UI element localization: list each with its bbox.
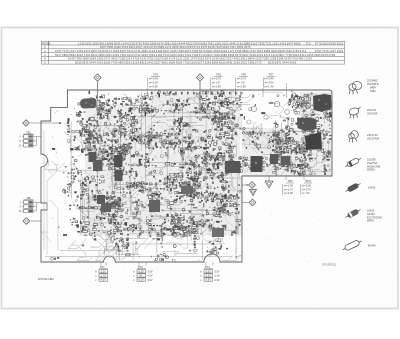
svg-text:4141: 4141 — [140, 57, 147, 61]
svg-text:1920: 1920 — [97, 57, 104, 61]
svg-text:C: C — [19, 206, 21, 209]
svg-text:1753: 1753 — [236, 41, 243, 45]
svg-text:4606: 4606 — [294, 41, 301, 45]
IC component top-right corner — [313, 94, 332, 112]
svg-text:TP3: TP3 — [205, 266, 210, 269]
wire from TB2 into board — [37, 201, 42, 203]
svg-text:5943: 5943 — [293, 53, 300, 57]
svg-text:c=-2.8V: c=-2.8V — [212, 84, 221, 88]
svg-text:1320: 1320 — [154, 57, 161, 61]
wire to G2 — [268, 176, 270, 181]
svg-text:1S425: 1S425 — [368, 187, 376, 190]
dark cluster lower-mid2 — [181, 186, 193, 194]
svg-text:5030: 5030 — [75, 60, 82, 64]
svg-text:e=-4.2V: e=-4.2V — [149, 81, 158, 85]
svg-text:TP2: TP2 — [138, 266, 143, 269]
svg-text:1905: 1905 — [92, 41, 99, 45]
svg-text:2980: 2980 — [221, 53, 228, 57]
svg-text:9857: 9857 — [91, 49, 98, 53]
svg-text:1537: 1537 — [257, 49, 264, 53]
svg-text:5976: 5976 — [321, 53, 328, 57]
svg-text:5497: 5497 — [242, 53, 249, 57]
svg-text:3877: 3877 — [287, 41, 294, 45]
svg-text:TR5: TR5 — [216, 73, 221, 77]
transistor package Q-type3 — [349, 131, 359, 143]
svg-text:9149: 9149 — [68, 57, 75, 61]
svg-text:5764: 5764 — [193, 41, 200, 45]
svg-text:-2.5V: -2.5V — [214, 271, 220, 274]
svg-text:4915: 4915 — [122, 45, 129, 49]
svg-text:9093: 9093 — [200, 41, 207, 45]
svg-text:6312: 6312 — [127, 49, 134, 53]
svg-text:6192: 6192 — [85, 41, 92, 45]
svg-text:6423: 6423 — [206, 53, 213, 57]
svg-text:-1.2V: -1.2V — [214, 275, 220, 278]
svg-text:7758: 7758 — [285, 53, 292, 57]
test point table TP3 (bottom) — [200, 266, 220, 282]
svg-text:c=-1.3V: c=-1.3V — [265, 84, 274, 88]
wire leader at x286 — [285, 83, 287, 98]
svg-text:2182: 2182 — [156, 53, 163, 57]
svg-text:3989: 3989 — [98, 53, 105, 57]
svg-text:4674: 4674 — [84, 49, 91, 53]
voltage table TR7 — [263, 73, 276, 97]
wire from P1 into board — [97, 81, 99, 98]
svg-text:8891: 8891 — [69, 53, 76, 57]
svg-text:8751: 8751 — [136, 41, 143, 45]
svg-text:e= 0V: e= 0V — [212, 81, 220, 85]
svg-text:7200: 7200 — [192, 53, 199, 57]
svg-text:5345: 5345 — [205, 60, 212, 64]
parts list table — [42, 41, 345, 64]
svg-text:6711: 6711 — [134, 49, 141, 53]
long bus trace along bottom 2 — [60, 244, 225, 251]
wire edge to P6 — [242, 202, 249, 204]
svg-text:c=-2.8V: c=-2.8V — [237, 84, 246, 88]
PCB board outline — [41, 90, 332, 262]
svg-text:3516: 3516 — [172, 41, 179, 45]
svg-text:9787: 9787 — [55, 49, 62, 53]
svg-text:9444: 9444 — [89, 60, 96, 64]
svg-text:TR9: TR9 — [288, 179, 293, 183]
svg-text:7756: 7756 — [183, 60, 190, 64]
svg-text:WZ061: WZ061 — [367, 169, 376, 172]
diode package D-type2 (dark) — [344, 181, 361, 193]
svg-text:4739: 4739 — [133, 57, 140, 61]
svg-text:c= 0V: c= 0V — [302, 191, 310, 195]
svg-text:3796: 3796 — [329, 53, 336, 57]
svg-text:1562: 1562 — [215, 41, 222, 45]
wire edge to P5 — [242, 184, 248, 186]
svg-text:4462: 4462 — [143, 41, 150, 45]
connector pin P5 — [249, 182, 256, 189]
jumper wire package (open cylinder) — [341, 238, 362, 252]
svg-text:0V: 0V — [138, 275, 143, 278]
wire from TB1 into board — [37, 136, 42, 138]
svg-text:2808: 2808 — [172, 45, 179, 49]
electrolytic blob right-lower — [251, 156, 263, 172]
svg-text:-1.3V: -1.3V — [100, 270, 106, 273]
svg-text:5043: 5043 — [222, 45, 229, 49]
svg-text:7460: 7460 — [285, 49, 292, 53]
svg-text:7692: 7692 — [192, 49, 199, 53]
svg-text:9148: 9148 — [284, 57, 291, 61]
svg-text:2110: 2110 — [251, 41, 258, 45]
svg-text:6232: 6232 — [257, 53, 264, 57]
svg-text:8245: 8245 — [77, 53, 84, 57]
svg-text:6537: 6537 — [163, 49, 170, 53]
svg-text:-0.3V: -0.3V — [205, 270, 211, 273]
svg-text:7745: 7745 — [111, 60, 118, 64]
transistor package Q-type1 (TO-92 perspective) — [349, 81, 362, 94]
svg-text:9201: 9201 — [125, 60, 132, 64]
svg-text:3298: 3298 — [277, 57, 284, 61]
svg-text:2031: 2031 — [272, 41, 279, 45]
svg-text:5225: 5225 — [128, 41, 135, 45]
svg-text:6676: 6676 — [235, 53, 242, 57]
svg-text:-1.2V: -1.2V — [205, 275, 211, 278]
svg-text:8174: 8174 — [105, 49, 112, 53]
svg-text:9151: 9151 — [222, 41, 229, 45]
svg-text:9444: 9444 — [282, 60, 289, 64]
svg-text:1100: 1100 — [190, 60, 197, 64]
connector pin P4 (lower-left diamond) — [23, 218, 30, 225]
svg-text:5756: 5756 — [147, 57, 154, 61]
svg-text:2027: 2027 — [226, 57, 233, 61]
leaders TP2 — [138, 262, 140, 266]
svg-text:7238: 7238 — [118, 57, 125, 61]
svg-text:9842: 9842 — [161, 60, 168, 64]
leaders TP3 — [205, 262, 207, 266]
svg-text:5260: 5260 — [162, 57, 169, 61]
parts table row texts — [42, 41, 343, 64]
connector pin P3 (left edge diamond) — [23, 120, 30, 127]
svg-text:7542: 7542 — [208, 41, 215, 45]
svg-text:7175: 7175 — [62, 49, 69, 53]
svg-text:1808: 1808 — [82, 57, 89, 61]
svg-text:e=-3.0V: e=-3.0V — [265, 81, 274, 85]
svg-text:5713: 5713 — [194, 45, 201, 49]
svg-text:1479: 1479 — [190, 57, 197, 61]
IC above bottom edge of right arm — [225, 161, 241, 173]
svg-text:2607: 2607 — [136, 45, 143, 49]
leader from TR10 — [303, 176, 305, 180]
svg-text:TR10: TR10 — [305, 179, 312, 183]
diode package D-type3 — [344, 207, 361, 219]
svg-text:7906: 7906 — [213, 53, 220, 57]
svg-text:1144: 1144 — [121, 41, 128, 45]
svg-text:1241: 1241 — [126, 57, 133, 61]
svg-text:6374: 6374 — [157, 41, 164, 45]
svg-text:MODEL: MODEL — [42, 42, 51, 45]
svg-text:7347: 7347 — [230, 45, 237, 49]
svg-text:1039: 1039 — [337, 49, 344, 53]
svg-text:6742: 6742 — [134, 53, 141, 57]
svg-text:6894: 6894 — [62, 53, 69, 57]
svg-text:2229: 2229 — [255, 57, 262, 61]
svg-text:1347: 1347 — [69, 49, 76, 53]
test point table TP2 (bottom) — [133, 266, 153, 282]
scan grey wash dense zones — [80, 90, 332, 236]
svg-text:3976: 3976 — [205, 57, 212, 61]
svg-text:5023: 5023 — [337, 41, 344, 45]
wire from P3 to board — [31, 122, 61, 124]
capacitor rings right-top — [297, 102, 303, 108]
svg-text:9444: 9444 — [179, 41, 186, 45]
svg-text:7285: 7285 — [258, 41, 265, 45]
svg-text:-5.0V: -5.0V — [147, 279, 153, 282]
svg-text:9406: 9406 — [221, 49, 228, 53]
labels 2SC945 group — [367, 80, 379, 93]
svg-text:3235: 3235 — [170, 49, 177, 53]
svg-text:-0.9V: -0.9V — [214, 279, 220, 282]
svg-text:1119: 1119 — [271, 53, 278, 57]
svg-text:5499: 5499 — [156, 49, 163, 53]
shielding can top-left — [80, 98, 97, 109]
svg-text:5111: 5111 — [176, 57, 183, 61]
svg-text:8041: 8041 — [206, 49, 213, 53]
svg-text:3962: 3962 — [164, 41, 171, 45]
svg-text:3083: 3083 — [271, 49, 278, 53]
svg-text:4143: 4143 — [290, 60, 297, 64]
labels 1S425/AA143 group — [367, 210, 382, 223]
svg-text:5827: 5827 — [278, 53, 285, 57]
svg-text:9710: 9710 — [300, 49, 307, 53]
svg-text:c=-4.3V: c=-4.3V — [284, 191, 293, 195]
svg-text:2651: 2651 — [105, 53, 112, 57]
wire from P4 to board — [31, 220, 41, 222]
svg-text:9079: 9079 — [185, 49, 192, 53]
svg-text:8648: 8648 — [278, 49, 285, 53]
svg-text:3264: 3264 — [141, 53, 148, 57]
svg-text:5019: 5019 — [98, 49, 105, 53]
voltage table TR5 — [211, 73, 224, 95]
svg-text:5606: 5606 — [104, 60, 111, 64]
svg-text:6034: 6034 — [170, 53, 177, 57]
svg-text:b=-1.3V: b=-1.3V — [284, 183, 293, 187]
svg-text:TR7: TR7 — [269, 73, 274, 77]
svg-text:7319: 7319 — [185, 53, 192, 57]
labels 1S2076 group — [367, 159, 381, 172]
svg-text:CP107CQ: CP107CQ — [322, 262, 336, 266]
dark vertical strip left-mid — [114, 155, 123, 167]
svg-text:8391: 8391 — [107, 45, 114, 49]
svg-text:C: C — [19, 140, 21, 143]
long bus trace along bottom — [45, 256, 232, 258]
svg-text:8068: 8068 — [114, 45, 121, 49]
svg-text:e=-3.7V: e=-3.7V — [302, 187, 311, 191]
connector block TB2 (left lower) — [19, 197, 36, 213]
svg-text:2775: 2775 — [255, 60, 262, 64]
svg-text:7361: 7361 — [120, 53, 127, 57]
svg-text:8813: 8813 — [100, 41, 107, 45]
svg-text:6714: 6714 — [199, 53, 206, 57]
svg-text:1039: 1039 — [77, 49, 84, 53]
svg-text:e= 0V: e= 0V — [237, 81, 245, 85]
label 1S425 — [368, 187, 376, 190]
svg-text:3168: 3168 — [233, 60, 240, 64]
svg-text:BY409: BY409 — [368, 245, 376, 248]
svg-text:WR61: WR61 — [367, 220, 375, 223]
label BY409 — [368, 245, 376, 248]
svg-text:6910: 6910 — [129, 45, 136, 49]
svg-text:4143: 4143 — [97, 60, 104, 64]
svg-text:9787: 9787 — [315, 49, 322, 53]
svg-text:6264: 6264 — [186, 45, 193, 49]
connector block TB1 (left) — [19, 131, 36, 147]
svg-text:5916: 5916 — [300, 53, 307, 57]
svg-text:3899: 3899 — [228, 53, 235, 57]
leader from TR9 — [285, 176, 287, 180]
svg-text:2191: 2191 — [183, 57, 190, 61]
connector pin P6 — [249, 199, 256, 206]
svg-text:6589: 6589 — [158, 45, 165, 49]
svg-text:-3.9V: -3.9V — [205, 279, 211, 282]
svg-text:3895: 3895 — [107, 41, 114, 45]
svg-text:7695: 7695 — [177, 49, 184, 53]
svg-text:7380: 7380 — [75, 57, 82, 61]
svg-text:4054: 4054 — [177, 53, 184, 57]
cluster right-mid upper — [297, 118, 317, 132]
svg-text:b=-3.4V: b=-3.4V — [149, 77, 158, 81]
svg-text:9377: 9377 — [197, 60, 204, 64]
connector pin P2 (top-mid diamond) — [196, 74, 203, 81]
labels 2SC1740 group — [367, 134, 379, 140]
voltage table TR10 — [301, 179, 312, 195]
connector pin P1 (top-left diamond) — [94, 74, 101, 81]
svg-text:7549: 7549 — [149, 53, 156, 57]
svg-text:3771: 3771 — [104, 57, 111, 61]
svg-text:5673: 5673 — [199, 49, 206, 53]
svg-text:4750: 4750 — [293, 49, 300, 53]
svg-text:7304: 7304 — [84, 53, 91, 57]
svg-text:6429: 6429 — [113, 53, 120, 57]
svg-text:8620: 8620 — [91, 53, 98, 57]
wire bundle: copper traces over whole board — [42, 91, 330, 260]
svg-text:1020: 1020 — [306, 57, 313, 61]
svg-text:TP1: TP1 — [100, 266, 105, 269]
svg-text:9227: 9227 — [154, 60, 161, 64]
svg-text:8230: 8230 — [219, 60, 226, 64]
heatsink blob right-mid — [305, 132, 322, 150]
svg-text:TL5: TL5 — [306, 41, 311, 45]
voltage table TR9 — [283, 179, 294, 195]
svg-text:3374: 3374 — [264, 53, 271, 57]
svg-text:4451: 4451 — [234, 57, 241, 61]
svg-text:9854: 9854 — [248, 57, 255, 61]
svg-text:3004: 3004 — [169, 60, 176, 64]
svg-text:1474: 1474 — [165, 45, 172, 49]
svg-text:3228: 3228 — [249, 53, 256, 57]
svg-text:-0.1V: -0.1V — [138, 279, 144, 282]
svg-text:4425: 4425 — [111, 57, 118, 61]
cluster right-mid band — [270, 154, 278, 164]
ground symbol G1 — [250, 190, 257, 196]
svg-text:5030: 5030 — [268, 60, 275, 64]
svg-text:5491: 5491 — [226, 60, 233, 64]
svg-text:7365: 7365 — [248, 60, 255, 64]
dark cluster lower-left — [97, 195, 105, 204]
svg-text:5812: 5812 — [241, 57, 248, 61]
svg-text:8819: 8819 — [140, 60, 147, 64]
dark cluster lower-mid — [149, 200, 160, 212]
svg-text:9744: 9744 — [150, 45, 157, 49]
svg-text:8571: 8571 — [275, 60, 282, 64]
svg-text:4495: 4495 — [314, 53, 321, 57]
voltage table TR3 — [148, 73, 161, 95]
svg-text:4055: 4055 — [307, 53, 314, 57]
svg-text:-1.7V: -1.7V — [100, 275, 106, 278]
svg-text:1049: 1049 — [113, 49, 120, 53]
svg-text:5632: 5632 — [219, 57, 226, 61]
wire from P2 into board — [199, 81, 201, 112]
svg-text:4049: 4049 — [229, 41, 236, 45]
svg-text:4841: 4841 — [298, 57, 305, 61]
svg-text:3063: 3063 — [213, 49, 220, 53]
svg-text:2SC1740A: 2SC1740A — [367, 137, 379, 140]
test point table TP1 (bottom) — [95, 266, 108, 282]
svg-text:2127: 2127 — [228, 49, 235, 53]
svg-text:6124: 6124 — [133, 60, 140, 64]
svg-text:4506: 4506 — [176, 60, 183, 64]
dark cluster bottom-mid — [212, 228, 224, 237]
svg-text:1208: 1208 — [270, 57, 277, 61]
svg-text:2035: 2035 — [212, 57, 219, 61]
svg-text:-4.3V: -4.3V — [100, 279, 106, 282]
svg-text:4795: 4795 — [235, 49, 242, 53]
svg-text:2882: 2882 — [141, 49, 148, 53]
svg-text:3522: 3522 — [241, 60, 248, 64]
svg-text:3507: 3507 — [120, 49, 127, 53]
svg-text:b=-3.0V: b=-3.0V — [302, 183, 311, 187]
svg-text:4843: 4843 — [118, 60, 125, 64]
svg-text:EXP40-H82: EXP40-H82 — [38, 277, 54, 281]
voltage table TR6 — [236, 73, 249, 96]
diode package D-type1 (angled cylinder) — [344, 156, 362, 169]
svg-text:1864: 1864 — [90, 57, 97, 61]
solder pad dots — [43, 93, 330, 261]
svg-text:9116: 9116 — [127, 53, 134, 57]
svg-text:7760: 7760 — [291, 57, 298, 61]
svg-text:4702: 4702 — [249, 49, 256, 53]
svg-text:2SA733P: 2SA733P — [367, 112, 378, 115]
svg-text:b=-0.7V: b=-0.7V — [237, 77, 246, 81]
svg-text:5917: 5917 — [55, 53, 62, 57]
svg-text:9890: 9890 — [242, 49, 249, 53]
svg-text:TR6: TR6 — [241, 73, 246, 77]
svg-text:e=-1.7V: e=-1.7V — [284, 187, 293, 191]
svg-text:c=-0.8V: c=-0.8V — [149, 84, 158, 88]
svg-text:6056: 6056 — [114, 41, 121, 45]
long trace left margin — [44, 130, 58, 255]
svg-text:-3.5V: -3.5V — [147, 271, 153, 274]
svg-text:4129: 4129 — [149, 49, 156, 53]
svg-text:1235: 1235 — [78, 41, 85, 45]
labels 2SA733 group — [367, 109, 378, 115]
transistor package Q-type2 — [348, 107, 360, 119]
svg-text:6200: 6200 — [322, 41, 329, 45]
svg-text:7543: 7543 — [163, 53, 170, 57]
svg-text:2888: 2888 — [244, 41, 251, 45]
svg-text:6396: 6396 — [150, 41, 157, 45]
svg-text:-4.2V: -4.2V — [147, 275, 153, 278]
svg-text:3178: 3178 — [169, 57, 176, 61]
svg-text:7175: 7175 — [322, 49, 329, 53]
svg-text:TR3: TR3 — [153, 73, 158, 77]
svg-text:b=-0.7V: b=-0.7V — [212, 77, 221, 81]
svg-text:8571: 8571 — [82, 60, 89, 64]
svg-text:7426: 7426 — [215, 45, 222, 49]
